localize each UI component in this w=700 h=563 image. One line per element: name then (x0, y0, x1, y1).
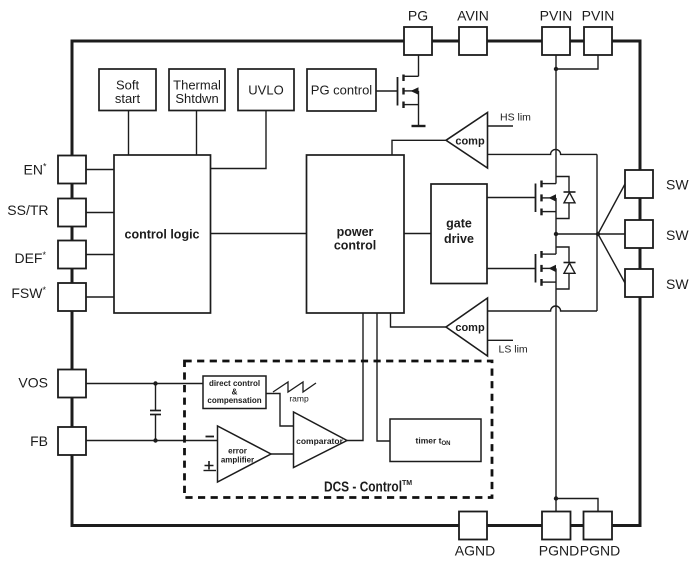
wire DEF to control logic (86, 254, 114, 256)
block gate drive (431, 184, 487, 284)
diode D2 low-side body diode (556, 247, 576, 289)
ramp sawtooth symbol (273, 382, 316, 404)
wire low-side source to PGND (555, 268, 557, 511)
block power control (307, 155, 405, 313)
wire SW fan to SW pin 3 (598, 234, 625, 283)
IC boundary (72, 41, 640, 526)
pin PVIN 2 (582, 8, 615, 56)
label plus input (205, 461, 214, 470)
svg-text:HS lim: HS lim (500, 112, 531, 124)
ground (412, 125, 426, 127)
svg-text:AVIN: AVIN (457, 8, 489, 24)
node SW at FET midpoint (554, 232, 558, 236)
wire branch to PGND2 (556, 499, 598, 512)
node capacitor top (153, 381, 157, 385)
svg-text:comparator: comparator (296, 436, 343, 446)
svg-text:compensation: compensation (207, 396, 261, 405)
svg-text:control logic: control logic (125, 228, 200, 242)
svg-text:SW: SW (666, 177, 689, 193)
pin VOS (18, 370, 86, 398)
wire SS/TR to control logic (86, 212, 114, 214)
svg-text:VOS: VOS (18, 375, 48, 391)
svg-text:DCS - Control: DCS - Control (324, 480, 402, 496)
node SW at sense line (596, 232, 600, 236)
wire error amp plus reference stub (204, 470, 217, 472)
label HS lim (500, 112, 531, 124)
svg-text:SW: SW (666, 276, 689, 292)
wire PVIN down to high-side drain (555, 55, 557, 184)
svg-text:PGND: PGND (580, 543, 620, 559)
wire gate drive to low-side gate (487, 268, 536, 270)
wire SW sense vertical (596, 154, 598, 311)
pin SS/TR (7, 199, 86, 227)
wire control logic to power control (211, 233, 307, 235)
block DCS-Control dashed boundary (185, 361, 493, 498)
pin AVIN (457, 8, 489, 56)
svg-text:drive: drive (444, 232, 474, 246)
wire Soft start to control logic (128, 111, 130, 156)
wire PVIN2 join (556, 55, 598, 69)
svg-text:FSW*: FSW* (11, 285, 46, 301)
svg-text:comp: comp (455, 322, 485, 334)
pin DEF (14, 241, 86, 269)
node PGND junction (554, 496, 558, 500)
wire SW fan to SW pin 1 (598, 184, 625, 234)
pin PGND 2 (580, 512, 620, 559)
pin AGND (455, 512, 495, 559)
svg-text:DEF*: DEF* (14, 250, 46, 266)
svg-text:control: control (334, 239, 376, 253)
node PVIN junction (554, 67, 558, 71)
svg-text:UVLO: UVLO (248, 83, 283, 98)
label minus input (206, 436, 215, 438)
svg-text:SS/TR: SS/TR (7, 202, 48, 218)
wire PG control to Q1 gate (376, 90, 397, 92)
capacitor C1 (150, 384, 161, 441)
block Soft start (99, 69, 156, 111)
svg-text:Shtdwn: Shtdwn (175, 91, 218, 106)
wire FSW to control logic (86, 296, 114, 298)
svg-text:error: error (228, 447, 247, 456)
wire power control to gate drive (404, 233, 431, 235)
transistor Q3 low-side FET (536, 234, 557, 286)
svg-text:comp: comp (455, 136, 485, 148)
svg-text:start: start (115, 91, 141, 106)
wire HS comp sense with jump over PVIN line (488, 149, 598, 154)
pin FSW (11, 283, 86, 311)
block direct control and compensation (203, 376, 266, 409)
op-amp error amplifier (218, 426, 272, 482)
wire EN to control logic (86, 169, 114, 171)
svg-text:FB: FB (30, 433, 48, 449)
svg-text:PG control: PG control (311, 83, 373, 98)
svg-text:amplifier: amplifier (221, 456, 254, 465)
pin SW 1 (625, 170, 689, 198)
wire VOS to direct control (86, 383, 203, 385)
op-amp HS current limit comparator (446, 113, 488, 169)
wire SW node horizontal (556, 233, 598, 235)
pin PG (404, 8, 432, 56)
svg-text:ramp: ramp (289, 394, 309, 404)
svg-text:PVIN: PVIN (582, 8, 615, 24)
pin FB (30, 427, 86, 455)
wire comparator output to power control (347, 313, 363, 441)
node capacitor bottom (153, 438, 157, 442)
wire direct control to comparator (266, 394, 294, 427)
pin PGND 1 (539, 512, 579, 559)
wire FB to error amplifier (86, 440, 218, 442)
svg-text:power: power (337, 225, 374, 239)
op-amp comparator (294, 412, 348, 468)
wire LS comp sense with jump over PGND line (488, 306, 598, 311)
wire UVLO to control logic (211, 111, 267, 169)
wire LS comp output to power control (391, 313, 447, 327)
svg-text:gate: gate (446, 217, 472, 231)
wire HS lim input stub (488, 125, 514, 127)
pin SW 3 (625, 269, 689, 297)
svg-text:PVIN: PVIN (540, 8, 573, 24)
block UVLO (238, 69, 294, 111)
svg-text:PGND: PGND (539, 543, 579, 559)
block control logic (114, 155, 211, 313)
wire gate drive to high-side gate (487, 197, 536, 199)
block PG control (307, 69, 376, 111)
block timer tON (390, 419, 481, 462)
pin PVIN 1 (540, 8, 573, 56)
pin SW 2 (625, 220, 689, 248)
wire HS comp output to power control (392, 140, 446, 155)
wire SW fan to SW pin 2 (598, 233, 625, 235)
wire error amp output to comparator (271, 453, 294, 455)
svg-text:LS lim: LS lim (499, 344, 528, 356)
svg-text:TM: TM (402, 480, 412, 487)
wire power control to timer (377, 313, 390, 441)
svg-text:PG: PG (408, 8, 428, 24)
wire Thermal Shtdwn to control logic (196, 111, 198, 156)
label LS lim (499, 344, 528, 356)
transistor Q1 PG open drain (398, 55, 419, 126)
svg-text:AGND: AGND (455, 543, 495, 559)
pin EN (24, 156, 86, 184)
wire LS lim input stub (488, 339, 514, 341)
diode D1 high-side body diode (556, 177, 576, 219)
block Thermal Shtdwn (169, 69, 225, 111)
op-amp LS current limit comparator (446, 298, 488, 356)
svg-text:SW: SW (666, 227, 689, 243)
transistor Q2 high-side FET (536, 181, 557, 235)
